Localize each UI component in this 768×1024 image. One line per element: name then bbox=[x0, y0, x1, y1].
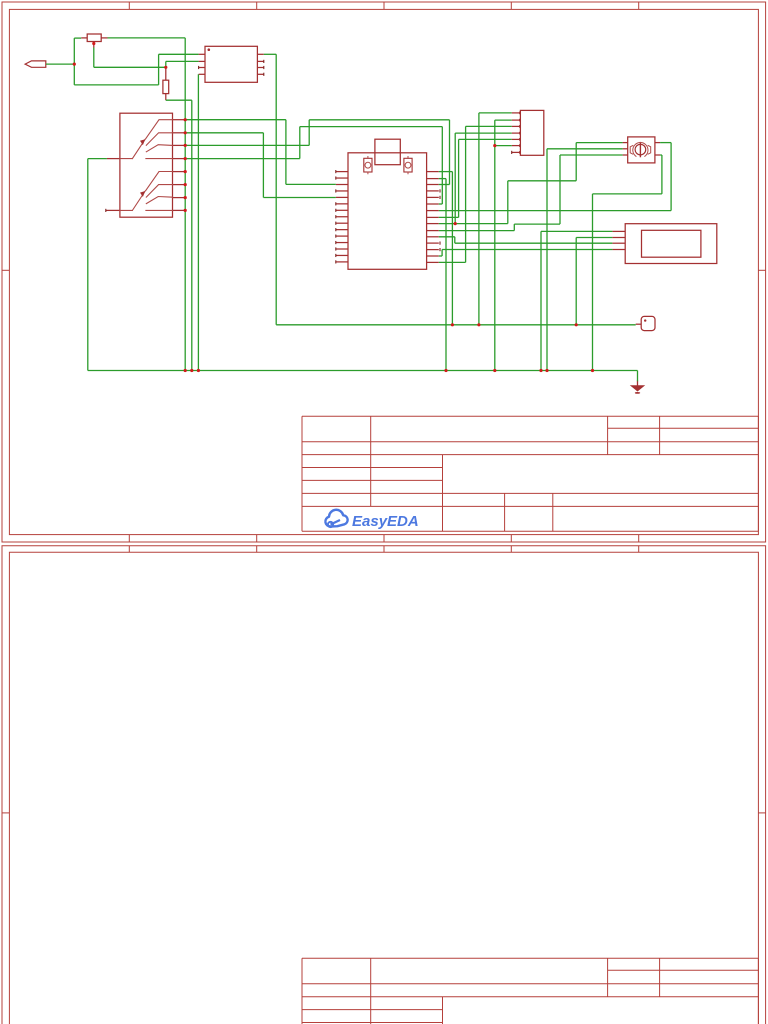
junction bbox=[184, 209, 187, 212]
connector J1 pin mark bbox=[519, 119, 521, 122]
no-connect U1 pin3 bbox=[198, 66, 200, 69]
module U2 left pin bbox=[336, 177, 348, 179]
wire to U1 pin1 bbox=[159, 53, 199, 55]
wire U2 p0 down bbox=[451, 172, 453, 325]
no-connect U2 left pin bbox=[335, 235, 337, 238]
wire SW1 t1 to U2 bbox=[286, 183, 336, 185]
wire U2 p9 bbox=[439, 230, 515, 232]
junction bbox=[184, 170, 187, 173]
module U2 button1 tabs bbox=[367, 157, 369, 174]
module U2 left pin bbox=[336, 203, 348, 205]
frame tick bottom page1 bbox=[510, 535, 512, 542]
junction bbox=[164, 66, 167, 69]
wire RP1 left2 bbox=[547, 148, 623, 150]
IC U1 left pin bbox=[199, 60, 205, 62]
wire SW1 t4 a bbox=[185, 158, 300, 160]
wire U1 out bbox=[264, 53, 276, 55]
switch SW1 pin bbox=[173, 209, 186, 211]
module U2 left pin bbox=[336, 229, 348, 231]
title block line bbox=[302, 415, 758, 417]
potentiometer RP1 body bbox=[628, 137, 655, 163]
no-connect U2 left pin bbox=[335, 241, 337, 244]
no-connect U2 left pin bbox=[335, 209, 337, 212]
wire J1 pin2 bbox=[495, 119, 512, 121]
resistor R1 tap lead bbox=[93, 42, 95, 48]
frame tick bottom page1 bbox=[638, 535, 640, 542]
title block line bbox=[302, 957, 758, 959]
wire vertical switch bus bbox=[184, 38, 186, 371]
EasyEDA logo node dot bbox=[328, 522, 333, 527]
EasyEDA logo node bbox=[332, 521, 340, 525]
switch SW1 pin bbox=[173, 171, 186, 173]
wire U2 p8 bbox=[439, 223, 508, 225]
wire bus to ground bbox=[637, 371, 639, 382]
module U2 left pin bbox=[336, 242, 348, 244]
wire U1 out vertical bbox=[275, 54, 277, 325]
title block line bbox=[659, 416, 661, 454]
connector J1 pin mark bbox=[519, 138, 521, 141]
wire SW1 t1 b bbox=[285, 120, 287, 185]
wire bottom jog bbox=[74, 84, 158, 86]
no-connect U2 left pin bbox=[335, 215, 337, 218]
module U2 right pin bbox=[427, 190, 439, 192]
wire J1 pin1 bbox=[479, 112, 512, 114]
module U2 left pin bbox=[336, 254, 348, 256]
wire RP1 left2 to bus bbox=[546, 149, 548, 371]
module U2 right pin bbox=[427, 203, 439, 205]
no-connect U2 left pin bbox=[335, 189, 337, 192]
potentiometer RP1 ring bbox=[633, 143, 648, 157]
wire U2 p6 up bbox=[670, 143, 672, 211]
border page2 inner bbox=[9, 552, 758, 1024]
wire p10 jog bbox=[454, 237, 456, 243]
module U2 left pin bbox=[336, 209, 348, 211]
touch key U3 pin bbox=[636, 323, 642, 325]
wire R2 to bus bbox=[191, 100, 193, 370]
wire to U1 pin2 bbox=[166, 60, 199, 62]
junction bbox=[493, 144, 496, 147]
module U2 right pin bbox=[427, 230, 439, 232]
IC U1 body bbox=[205, 46, 257, 82]
connector J1 body bbox=[520, 110, 543, 155]
wire p13 jog bbox=[441, 250, 443, 257]
potentiometer RP1 right clamp bbox=[648, 146, 651, 155]
border page1 inner bbox=[9, 9, 758, 534]
wire SW1 t3 to U2 bbox=[439, 184, 450, 186]
module U2 left pin bbox=[336, 171, 348, 173]
frame tick bottom page1 bbox=[256, 535, 258, 542]
wire U2 p0 bbox=[439, 171, 453, 173]
frame tick top page1 bbox=[256, 2, 258, 9]
wire p8 jog bbox=[508, 180, 576, 182]
connector J1 pin bbox=[512, 151, 521, 153]
wire SW1 t2 to U2 bbox=[263, 197, 335, 199]
connector J1 pin bbox=[512, 132, 521, 134]
wire SW1 t3 a bbox=[185, 144, 309, 146]
wire U2 p1 bbox=[439, 178, 446, 180]
wire p9 jog bbox=[514, 223, 560, 225]
title block line bbox=[607, 416, 609, 454]
frame tick bottom page1 bbox=[383, 535, 385, 542]
title block line bbox=[442, 997, 444, 1024]
module U2 right pin bbox=[427, 249, 439, 251]
wire U1 pin4 to bus bbox=[197, 74, 199, 370]
potentiometer RP1 right pin bbox=[655, 154, 660, 156]
junction bbox=[197, 369, 200, 372]
module U2 left pin bbox=[336, 184, 348, 186]
title block line bbox=[504, 493, 506, 531]
wire SW1 common bbox=[88, 158, 107, 160]
title block line bbox=[302, 996, 758, 998]
LCD DS1 screen bbox=[642, 230, 701, 257]
wire to LCD pin3 bbox=[455, 242, 613, 244]
module U2 left pin bbox=[336, 222, 348, 224]
wire SW1 common to bus bbox=[87, 159, 89, 371]
no-connect U2 left pin bbox=[335, 228, 337, 231]
wire SW1 t1 a bbox=[185, 119, 286, 121]
wire p9 jog up bbox=[513, 224, 515, 231]
no-connect U1 right pin bbox=[263, 60, 265, 63]
module U2 left pin bbox=[336, 235, 348, 237]
wire SW1 t3 d bbox=[449, 120, 451, 185]
junction bbox=[184, 157, 187, 160]
no-connect U2 left pin bbox=[335, 202, 337, 205]
junction bbox=[184, 118, 187, 121]
ground GND bbox=[631, 381, 644, 394]
title block line bbox=[608, 427, 759, 429]
wire to bus bbox=[592, 194, 594, 371]
junction bbox=[539, 369, 542, 372]
frame tick left page2 bbox=[2, 812, 9, 814]
no-connect U2 left pin bbox=[335, 254, 337, 257]
switch SW1 pin bbox=[173, 144, 186, 146]
potentiometer RP1 left pin bbox=[623, 142, 628, 144]
title block line bbox=[302, 530, 758, 532]
touch key U3 body bbox=[641, 316, 655, 330]
wire SW1 t3 b bbox=[308, 120, 310, 146]
wire U2 p13 bbox=[439, 255, 442, 257]
svg-text:EasyEDA: EasyEDA bbox=[352, 513, 419, 530]
wire to J1 pin3 bbox=[466, 125, 512, 127]
wire U2 p7 up bbox=[458, 139, 460, 217]
title block line bbox=[757, 958, 759, 1024]
connector J1 pin mark bbox=[519, 125, 521, 128]
wire to J1 pin5 bbox=[459, 138, 512, 140]
LCD DS1 pin bbox=[612, 249, 625, 251]
module U2 left pin bbox=[336, 190, 348, 192]
junction bbox=[493, 369, 496, 372]
wire LCD pin1 to bus bbox=[540, 231, 542, 370]
EasyEDA logo cloud bbox=[325, 510, 347, 527]
title block line bbox=[302, 1022, 443, 1024]
title block line bbox=[552, 493, 554, 531]
IC U1 left pin bbox=[199, 73, 205, 75]
wire to LCD pin4 bbox=[442, 249, 612, 251]
resistor R2 body bbox=[163, 80, 169, 93]
no-connect U2 right pin bbox=[439, 248, 441, 251]
module U2 left pin bbox=[336, 261, 348, 263]
no-connect U2 right pin bbox=[439, 242, 441, 245]
title block line bbox=[302, 983, 758, 985]
wire R1 left bbox=[74, 37, 81, 39]
switch SW1 pin bbox=[173, 119, 186, 121]
border page1 outer bbox=[2, 2, 766, 542]
no-connect U2 right pin bbox=[439, 189, 441, 192]
wire U2 p10 bbox=[439, 236, 455, 238]
frame tick top page2 bbox=[638, 546, 640, 552]
no-connect U2 left pin bbox=[335, 170, 337, 173]
wire tap to R2 bbox=[94, 66, 166, 68]
frame tick left page1 bbox=[2, 269, 9, 271]
wire up to U1 bbox=[158, 54, 160, 85]
switch SW1 pin bbox=[173, 197, 186, 199]
resistor R2 top lead bbox=[165, 67, 167, 80]
wire ground bus bbox=[88, 370, 638, 372]
module U2 button2 bbox=[404, 158, 412, 172]
wire up bbox=[165, 61, 167, 67]
switch SW1 pin bbox=[173, 132, 186, 134]
module U2 right pin bbox=[427, 216, 439, 218]
junction bbox=[575, 323, 578, 326]
frame tick top page2 bbox=[510, 546, 512, 552]
wire SW1 t2 a bbox=[185, 132, 263, 134]
potentiometer RP1 rotor bbox=[635, 144, 646, 155]
title block line bbox=[302, 505, 758, 507]
module U2 right pin bbox=[427, 236, 439, 238]
LCD DS1 pin bbox=[612, 242, 625, 244]
title block line bbox=[301, 416, 303, 531]
title block line bbox=[301, 958, 303, 1024]
no-connect U2 left pin bbox=[335, 247, 337, 250]
module U2 right pin bbox=[427, 261, 439, 263]
title block line bbox=[757, 416, 759, 531]
module U2 ESP32 body bbox=[348, 153, 427, 269]
wire U2 p7 bbox=[439, 216, 459, 218]
junction bbox=[444, 369, 447, 372]
wire SW1 t3 c bbox=[309, 119, 449, 121]
wire vertical left bbox=[73, 38, 75, 85]
wire J1 pin2 to bus bbox=[494, 120, 496, 370]
no-connect U2 left pin bbox=[335, 260, 337, 263]
resistor R1 left lead bbox=[81, 37, 87, 39]
connector J1 pin bbox=[512, 138, 521, 140]
module U2 left pin bbox=[336, 248, 348, 250]
title block line bbox=[659, 958, 661, 996]
wire RP1 right2 down bbox=[661, 155, 663, 194]
wire R1 tap down bbox=[93, 48, 95, 68]
resistor R2 bottom lead bbox=[165, 94, 167, 101]
wire net flag bbox=[46, 63, 74, 65]
junction bbox=[184, 196, 187, 199]
frame tick bottom page1 bbox=[128, 535, 130, 542]
module U2 antenna box bbox=[375, 139, 400, 165]
title block line bbox=[442, 455, 444, 532]
switch SW1 common A lead bbox=[107, 158, 120, 160]
junction bbox=[190, 369, 193, 372]
connector J1 pin mark bbox=[519, 144, 521, 147]
junction bbox=[184, 144, 187, 147]
junction bbox=[454, 222, 457, 225]
net flag IN1 bbox=[25, 61, 46, 67]
title block line bbox=[302, 492, 758, 494]
resistor R1 right lead bbox=[101, 37, 107, 39]
wire SW1 t4 d bbox=[441, 127, 443, 204]
title block line bbox=[302, 467, 443, 469]
potentiometer RP1 left pin bbox=[623, 148, 628, 150]
connector J1 pin mark bbox=[519, 132, 521, 135]
junction bbox=[591, 369, 594, 372]
frame tick right page1 bbox=[758, 269, 765, 271]
switch SW1 pole B glyph bbox=[120, 172, 173, 211]
frame tick top page2 bbox=[128, 546, 130, 552]
module U2 button1 circle bbox=[365, 162, 371, 168]
frame tick top page1 bbox=[128, 2, 130, 9]
no-connect U2 left pin bbox=[335, 176, 337, 179]
switch SW1 pin bbox=[173, 184, 186, 186]
module U2 left pin bbox=[336, 216, 348, 218]
no-connect U2 right pin bbox=[439, 196, 441, 199]
frame tick right page2 bbox=[758, 812, 765, 814]
potentiometer RP1 left pin bbox=[623, 154, 628, 156]
wire p14 up bbox=[465, 126, 467, 262]
no-connect J1 pin7 bbox=[511, 151, 513, 154]
module U2 right pin bbox=[427, 196, 439, 198]
IC U1 left pin bbox=[199, 67, 205, 69]
switch SW1 pin bbox=[173, 158, 186, 160]
potentiometer RP1 right pin bbox=[655, 142, 660, 144]
switch SW1 pole A glyph bbox=[120, 120, 173, 159]
junction bbox=[184, 369, 187, 372]
connector J1 pin mark bbox=[519, 151, 521, 154]
IC U1 right pin bbox=[257, 60, 263, 62]
title block line bbox=[608, 969, 759, 971]
title block line bbox=[302, 454, 758, 456]
module U2 right pin bbox=[427, 242, 439, 244]
wire J1 pin4 bbox=[455, 132, 512, 134]
wire to RP1 right1 bbox=[660, 142, 671, 144]
module U2 right pin bbox=[427, 255, 439, 257]
title block line bbox=[302, 479, 443, 481]
resistor R1 body bbox=[87, 34, 101, 42]
frame tick top page1 bbox=[383, 2, 385, 9]
wire LCD pin2 bbox=[576, 237, 612, 239]
wire R2 bottom bbox=[166, 99, 192, 101]
module U2 left pin bbox=[336, 196, 348, 198]
wire to RP1 left3 bbox=[560, 154, 623, 156]
wire LCD pin2 down bbox=[575, 238, 577, 325]
title block line bbox=[370, 958, 372, 1024]
wire touch key net bbox=[276, 324, 636, 326]
wire R1 to bus drop bbox=[108, 37, 186, 39]
module U2 button2 tabs bbox=[407, 157, 409, 174]
potentiometer RP1 slot bbox=[639, 143, 641, 157]
wire U2 p8 up bbox=[507, 181, 509, 224]
frame tick top page2 bbox=[383, 546, 385, 552]
no-connect U1 right pin bbox=[263, 66, 265, 69]
IC U1 pin1 mark bbox=[208, 48, 211, 51]
wire U2 p6 bbox=[439, 210, 671, 212]
wire LCD pin1 bbox=[541, 230, 612, 232]
LCD DS1 outer bbox=[625, 224, 717, 264]
wire RP1 right2 bbox=[660, 154, 662, 156]
module U2 right pin bbox=[427, 178, 439, 180]
junction bbox=[184, 131, 187, 134]
switch SW1 common B lead bbox=[106, 209, 120, 211]
wire jog left bbox=[593, 193, 662, 195]
border page2 outer bbox=[2, 546, 766, 1024]
frame tick top page1 bbox=[510, 2, 512, 9]
connector J1 pin bbox=[512, 145, 521, 147]
wire SW1 t2 b bbox=[262, 133, 264, 198]
connector J1 pin bbox=[512, 112, 521, 114]
junction bbox=[73, 63, 76, 66]
connector J1 pin bbox=[512, 119, 521, 121]
title block line bbox=[607, 958, 609, 996]
junction bbox=[477, 323, 480, 326]
title block line bbox=[370, 416, 372, 506]
wire SW1 t4 b bbox=[299, 127, 301, 159]
IC U1 right pin bbox=[257, 53, 263, 55]
wire SW1 t4 to U2 bbox=[439, 203, 443, 205]
switch SW1 body bbox=[120, 113, 173, 217]
module U2 button2 circle bbox=[405, 162, 411, 168]
IC U1 left pin bbox=[199, 53, 205, 55]
wire to RP1 left1 bbox=[576, 142, 622, 144]
wire J1 pin4 down bbox=[454, 133, 456, 224]
junction bbox=[451, 323, 454, 326]
frame tick top page1 bbox=[638, 2, 640, 9]
LCD DS1 pin bbox=[612, 230, 625, 232]
wire U2 p14 bbox=[439, 261, 466, 263]
connector J1 pin bbox=[512, 125, 521, 127]
module U2 right pin bbox=[427, 210, 439, 212]
no-connect SW1 common B bbox=[105, 209, 107, 212]
frame tick top page2 bbox=[256, 546, 258, 552]
IC U1 right pin bbox=[257, 73, 263, 75]
no-connect U1 right pin bbox=[263, 73, 265, 76]
wire p9 up bbox=[559, 155, 561, 224]
junction bbox=[184, 183, 187, 186]
junction bbox=[545, 369, 548, 372]
module U2 button1 bbox=[364, 158, 372, 172]
title block line bbox=[302, 441, 758, 443]
touch key U3 mark bbox=[644, 319, 646, 321]
module U2 right pin bbox=[427, 171, 439, 173]
junction R1 tap bbox=[92, 42, 95, 45]
LCD DS1 pin bbox=[612, 237, 625, 239]
connector J1 pin mark bbox=[519, 112, 521, 115]
no-connect U2 left pin bbox=[335, 222, 337, 225]
potentiometer RP1 left clamp bbox=[630, 146, 633, 155]
wire SW1 t4 c bbox=[300, 126, 443, 128]
wire U2 p1 to bus bbox=[445, 179, 447, 371]
IC U1 right pin bbox=[257, 67, 263, 69]
title block line bbox=[302, 1009, 443, 1011]
wire p8 up2 bbox=[575, 143, 577, 181]
module U2 right pin bbox=[427, 223, 439, 225]
module U2 right pin bbox=[427, 184, 439, 186]
wire J1 pin6 bbox=[495, 145, 512, 147]
wire J1 pin1 down bbox=[478, 113, 480, 325]
